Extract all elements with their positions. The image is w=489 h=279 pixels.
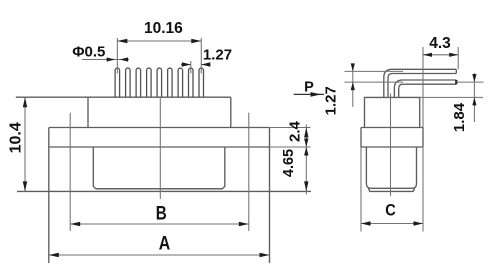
dim C extension left [360, 147, 362, 232]
dim 4.3 extension left / flange plane [422, 47, 424, 128]
side view bottom lip [368, 188, 414, 191]
arrow 4.3 right [449, 53, 458, 57]
pin 8 [189, 68, 194, 97]
arrow 10.16 right [191, 39, 201, 43]
pin lower end cap [455, 80, 457, 84]
dim B line [70, 223, 249, 225]
pin 6 [168, 68, 173, 97]
pin 9 [199, 68, 204, 97]
pin 1 [115, 68, 120, 97]
arrow C left [361, 221, 371, 225]
svg-text:2.4: 2.4 [287, 121, 304, 143]
arrow 10.16 left [117, 39, 127, 43]
svg-text:C: C [385, 202, 396, 220]
arrow B left [70, 222, 80, 226]
mounting hole centerline right [248, 113, 250, 231]
pin 5 [157, 68, 162, 97]
svg-text:4.65: 4.65 [281, 149, 297, 177]
svg-text:Φ0.5: Φ0.5 [72, 43, 105, 60]
svg-text:10.16: 10.16 [144, 20, 183, 37]
dim C extension right [422, 147, 424, 232]
front view bottom edge with extensions [17, 190, 311, 192]
svg-text:A: A [159, 233, 171, 255]
pin lower inner bend [399, 84, 457, 97]
pin upper end cap [455, 69, 457, 73]
dim 10.16 extension pin9 [200, 38, 202, 74]
side view flange [361, 128, 423, 148]
dim 1.27 line [181, 64, 211, 66]
pin upper inner bend [388, 74, 456, 98]
dim 2.4 4.65 line [305, 125, 307, 195]
dia 0.5 leader [82, 59, 129, 61]
svg-text:B: B [156, 203, 167, 225]
dim 10.4 line [24, 97, 26, 191]
side view centerline [390, 94, 392, 197]
svg-text:1.27: 1.27 [322, 86, 339, 115]
front view flange right edge + A extension [269, 128, 271, 264]
front view shell face division line [49, 146, 270, 148]
dim 1.84 top extension [457, 81, 484, 83]
svg-text:10.4: 10.4 [8, 122, 25, 153]
front view insulator recess rectangle [93, 147, 225, 189]
arrow 1.27 right [201, 62, 210, 66]
pin 4 [147, 68, 152, 97]
arrow 2.4 top [304, 128, 308, 138]
arrow A left [49, 253, 59, 257]
dim C line [361, 223, 423, 225]
pin 2 [126, 68, 131, 97]
dim 1.27 pin centerline extensions [345, 71, 404, 82]
arrow 1.27 down to upper pin [351, 63, 355, 71]
dim 4.3 extension right pin end [457, 47, 459, 69]
dim 1.27 line [352, 64, 354, 107]
front view top line with 10.4 extension [16, 96, 231, 98]
pin 3 [136, 68, 141, 97]
arrow 1.84 down [472, 74, 476, 82]
arrow 10.4 bottom [23, 181, 27, 191]
front view rear insulator block [88, 97, 231, 127]
dim 10.16 line [117, 40, 201, 42]
pin 7 [178, 68, 183, 97]
dim 1.84 bottom extension [420, 96, 483, 98]
dim 10.16 extension pin1 [116, 38, 118, 74]
dim 1.84 line [473, 73, 475, 122]
front view flange top edge [49, 127, 270, 129]
mounting hole centerline left [69, 113, 71, 231]
dim 4.3 line [423, 54, 458, 56]
arrow 4.3 left [423, 53, 432, 57]
front view flange left edge + A extension [48, 128, 50, 264]
svg-text:1.27: 1.27 [203, 46, 232, 63]
dim 2.4 4.65 extension ticks [270, 128, 311, 148]
arrow 1.27 left [182, 62, 191, 66]
arrow 1.84 up [472, 97, 476, 105]
dim 1.27 extension pin8 [190, 61, 192, 74]
svg-text:1.84: 1.84 [451, 102, 468, 132]
arrow A right [260, 253, 270, 257]
pin upper outer bend [384, 69, 457, 97]
side view shell body with rounded bottom [366, 147, 416, 188]
arrow 4.65 bottom [304, 181, 308, 191]
front view vertical centerline [159, 97, 161, 199]
arrow B right [239, 222, 249, 226]
arrow C right [414, 221, 424, 225]
dim A line [49, 254, 270, 256]
arrow dia0.5 left [107, 57, 116, 61]
pin lower outer bend [394, 80, 456, 97]
front view recess bottom line [96, 188, 223, 190]
svg-text:4.3: 4.3 [429, 35, 451, 52]
arrow dia0.5 right [120, 57, 129, 61]
side view rear insulator block [365, 97, 420, 127]
arrow 1.27 up to lower pin [351, 82, 355, 90]
arrow 2.4 bottom / 4.65 top [304, 139, 308, 156]
arrow 10.4 top [23, 97, 27, 107]
